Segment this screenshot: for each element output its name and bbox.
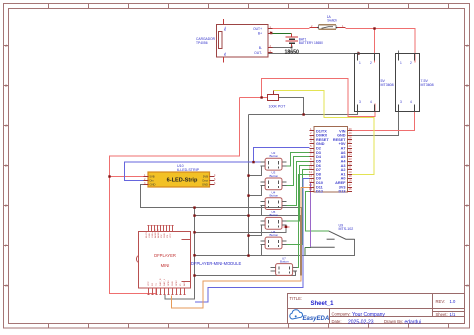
svg-text:C: C xyxy=(5,124,8,128)
svg-text:5VB: 5VB xyxy=(150,175,155,179)
svg-text:Drawn By:: Drawn By: xyxy=(384,319,403,324)
svg-text:G: G xyxy=(5,284,8,288)
svg-text:GND: GND xyxy=(164,233,166,238)
svg-text:3: 3 xyxy=(400,100,402,104)
svg-text:Din: Din xyxy=(150,179,155,183)
svg-text:IN+: IN+ xyxy=(223,26,227,31)
svg-text:MTS-102: MTS-102 xyxy=(339,227,354,231)
svg-text:Sheet:: Sheet: xyxy=(436,312,448,317)
svg-text:4: 4 xyxy=(370,100,372,104)
svg-text:USB+: USB+ xyxy=(152,232,154,238)
svg-text:ADC: ADC xyxy=(183,281,186,286)
svg-text:MT3608: MT3608 xyxy=(381,83,394,87)
svg-text:SPK2: SPK2 xyxy=(176,280,178,286)
svg-text:IO: IO xyxy=(180,283,182,286)
svg-text:VCC: VCC xyxy=(170,233,172,238)
svg-text:REV:: REV: xyxy=(436,299,446,304)
svg-text:SPK1: SPK1 xyxy=(168,280,170,286)
svg-text:D: D xyxy=(466,164,469,168)
svg-text:edardui: edardui xyxy=(405,319,422,325)
svg-text:USB-: USB- xyxy=(149,233,151,238)
svg-text:Button: Button xyxy=(280,259,289,263)
svg-text:G: G xyxy=(466,284,469,288)
svg-text:15: 15 xyxy=(309,187,313,191)
svg-text:OUT+: OUT+ xyxy=(253,27,262,31)
svg-text:Button: Button xyxy=(270,194,279,198)
svg-text:+5V: +5V xyxy=(339,142,346,146)
svg-text:IN-: IN- xyxy=(223,52,227,56)
svg-text:MINI: MINI xyxy=(161,263,170,268)
svg-text:D13: D13 xyxy=(339,190,346,194)
svg-text:MT3608: MT3608 xyxy=(421,83,434,87)
svg-text:D12: D12 xyxy=(316,190,323,194)
svg-text:DFPLAYER: DFPLAYER xyxy=(154,253,176,258)
svg-text:19: 19 xyxy=(349,174,353,178)
svg-text:GND: GND xyxy=(150,183,156,187)
svg-text:3: 3 xyxy=(359,100,361,104)
svg-text:DAC_L: DAC_L xyxy=(163,278,166,286)
svg-text:TP4056: TP4056 xyxy=(196,41,208,45)
svg-text:Button: Button xyxy=(270,154,279,158)
svg-text:4: 4 xyxy=(410,100,412,104)
svg-text:D: D xyxy=(5,164,8,168)
svg-text:BUSY: BUSY xyxy=(146,232,148,238)
svg-text:1.0: 1.0 xyxy=(450,299,456,304)
svg-text:Button: Button xyxy=(270,174,279,178)
svg-text:Switch: Switch xyxy=(327,19,337,23)
svg-text:EasyEDA: EasyEDA xyxy=(303,316,330,322)
svg-text:1/1: 1/1 xyxy=(450,312,456,317)
svg-text:5VB: 5VB xyxy=(203,175,208,179)
svg-text:Your Company: Your Company xyxy=(352,312,385,318)
svg-text:OUT-: OUT- xyxy=(254,51,262,55)
svg-text:GND: GND xyxy=(202,183,208,187)
svg-text:16: 16 xyxy=(349,187,353,191)
svg-text:2025-02-23: 2025-02-23 xyxy=(348,319,374,325)
svg-text:GND: GND xyxy=(172,281,174,286)
svg-text:Button: Button xyxy=(270,213,279,217)
svg-text:ADKEY2: ADKEY2 xyxy=(154,229,157,238)
svg-text:2: 2 xyxy=(410,61,412,65)
svg-text:12: 12 xyxy=(309,174,313,178)
svg-text:D9: D9 xyxy=(316,177,321,181)
svg-text:VCC: VCC xyxy=(148,281,150,286)
svg-text:Dout: Dout xyxy=(202,179,208,183)
svg-text:B+: B+ xyxy=(258,31,262,35)
svg-text:C: C xyxy=(466,124,469,128)
svg-text:BATTERY 18650: BATTERY 18650 xyxy=(299,41,323,45)
svg-text:DAC_R: DAC_R xyxy=(159,278,162,286)
svg-text:RX: RX xyxy=(152,282,154,286)
svg-text:6-LED-Strip: 6-LED-Strip xyxy=(167,178,198,184)
svg-text:27: 27 xyxy=(349,140,353,144)
svg-text:DFPLAYER-MINI-MODULE: DFPLAYER-MINI-MODULE xyxy=(191,261,241,266)
svg-text:1: 1 xyxy=(400,61,402,65)
svg-text:1: 1 xyxy=(359,61,361,65)
svg-text:18650: 18650 xyxy=(285,49,300,55)
svg-text:A0: A0 xyxy=(341,177,346,181)
svg-text:ADKEY1: ADKEY1 xyxy=(157,229,160,238)
svg-text:Button: Button xyxy=(270,233,279,237)
svg-text:Sheet_1: Sheet_1 xyxy=(311,301,335,307)
svg-text:6-LED-STRIP: 6-LED-STRIP xyxy=(177,168,200,172)
svg-text:Date:: Date: xyxy=(332,319,342,324)
svg-text:GND: GND xyxy=(316,142,325,146)
svg-text:100K POT: 100K POT xyxy=(269,105,287,109)
svg-text:Company:: Company: xyxy=(332,312,351,317)
svg-text:2: 2 xyxy=(370,61,372,65)
svg-text:TITLE:: TITLE: xyxy=(290,296,303,301)
svg-text:B-: B- xyxy=(259,46,262,50)
